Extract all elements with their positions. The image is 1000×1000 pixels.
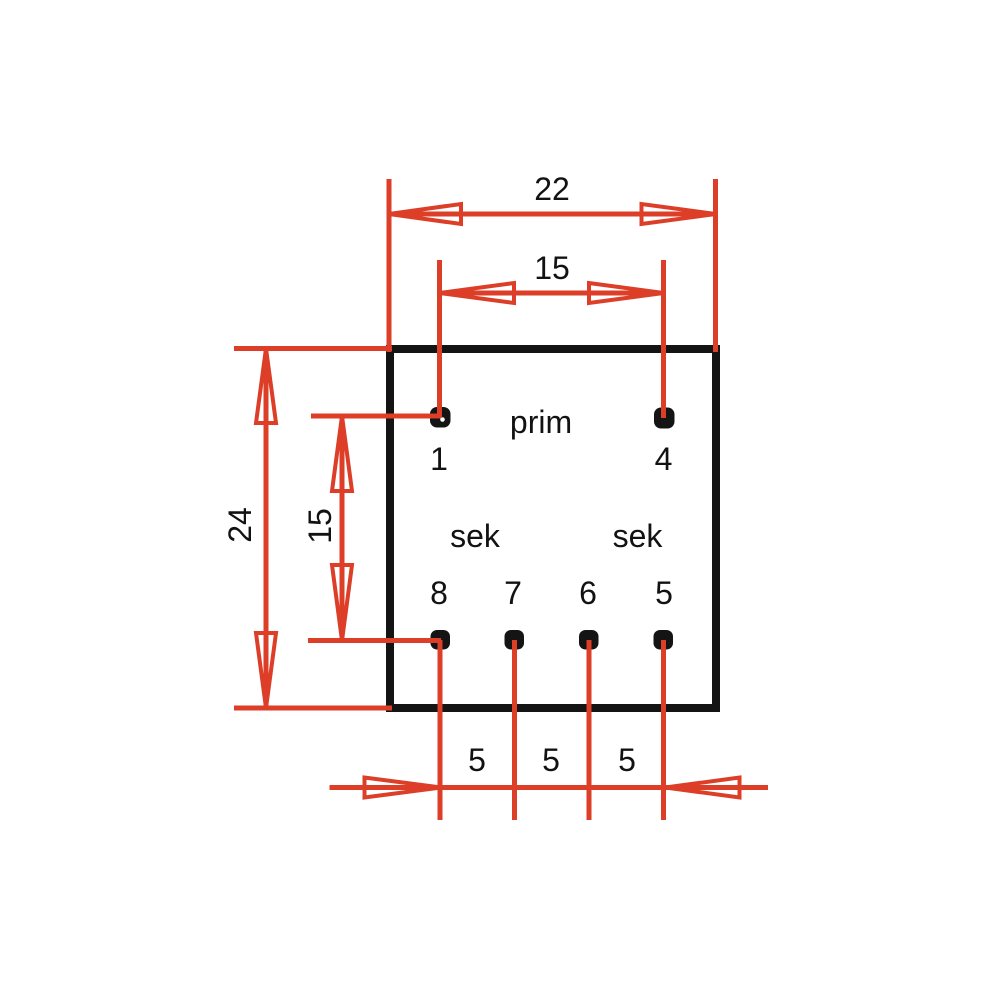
pin 1 center hole (440, 417, 445, 422)
svg-text:8: 8 (430, 575, 448, 611)
svg-text:4: 4 (655, 441, 673, 477)
dimension 5-5-5: right arrow (666, 778, 740, 798)
dimension 22: left arrow (389, 204, 461, 224)
dimension 15 top: extension+pin line right (661, 260, 666, 418)
pin 8 lead line (438, 640, 443, 820)
pin 1 (430, 407, 451, 428)
dimension 15 top: right arrow (589, 283, 664, 303)
dimension 22: extension line left (387, 179, 392, 352)
dimension 15 left: top arrow (332, 416, 352, 491)
dimension 15 left: extension line bottom (pin8 row) (308, 638, 441, 643)
pin 4 (654, 408, 675, 429)
dimension 5-5-5: left arrow (365, 778, 442, 798)
svg-text:5: 5 (468, 742, 486, 778)
dimension 15 top: extension+pin line left (437, 260, 442, 417)
dimension 24: top arrow (256, 349, 276, 424)
dimension 15 top: left arrow (440, 283, 515, 303)
dimension 22: extension line right (713, 179, 718, 352)
pin 6 (579, 630, 599, 650)
dimension 5-5-5: dimension line (330, 785, 769, 790)
svg-text:7: 7 (504, 575, 522, 611)
dimension 15 left: extension line top (pin1 row) (311, 414, 441, 419)
svg-text:6: 6 (579, 575, 597, 611)
svg-text:sek: sek (613, 518, 664, 554)
dimension 15 left: dimension line (340, 416, 345, 641)
svg-text:22: 22 (534, 171, 570, 207)
svg-text:5: 5 (542, 742, 560, 778)
pin 5 (654, 630, 674, 650)
svg-text:15: 15 (302, 508, 338, 544)
pin 6 lead line (587, 640, 592, 820)
svg-text:prim: prim (510, 404, 572, 440)
svg-text:1: 1 (430, 441, 448, 477)
dimension 15 top: dimension line (440, 291, 664, 296)
pin 7 lead line (512, 640, 517, 820)
svg-text:sek: sek (450, 518, 501, 554)
svg-text:5: 5 (618, 742, 636, 778)
dimension 24: extension line top (234, 346, 392, 351)
dimension 22: right arrow (642, 204, 716, 224)
dimension 24: dimension line (264, 349, 269, 709)
dimension 24: extension line bottom (234, 706, 392, 711)
svg-text:5: 5 (655, 575, 673, 611)
dimension 15 left: bottom arrow (332, 565, 352, 641)
dimension 22: dimension line (389, 212, 716, 217)
transformer body outline (390, 349, 716, 708)
pin 8 (431, 630, 451, 650)
svg-text:24: 24 (222, 507, 258, 543)
svg-text:15: 15 (534, 250, 570, 286)
pin 7 (505, 630, 525, 650)
dimension 24: bottom arrow (256, 633, 276, 708)
pin 5 lead line (661, 640, 666, 820)
